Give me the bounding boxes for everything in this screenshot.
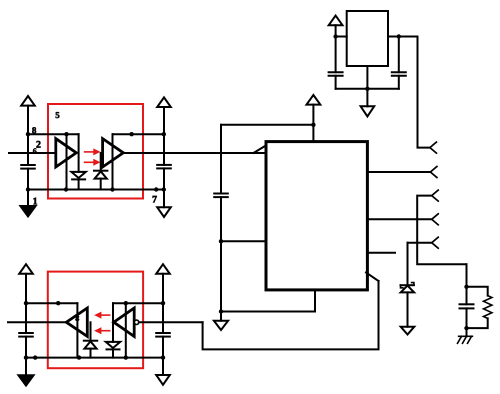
wire cap branch lower: [466, 308, 468, 328]
wire vertical through A3: [76, 303, 78, 357]
wire osc bottom rail: [336, 88, 399, 90]
connector J1: [430, 142, 437, 153]
wire IC right pin 1: [369, 171, 431, 173]
label pin 8 (opto2): [75, 315, 79, 321]
LED D4 feed wire: [112, 303, 114, 342]
wire RC feed vertical: [466, 264, 468, 287]
wire osc right rail: [398, 37, 400, 73]
wire resistor branch top: [467, 287, 488, 296]
wire opto2 top-left segment: [26, 302, 77, 304]
wire decoupling vertical upper: [220, 125, 222, 194]
wire opto1 bottom rail: [28, 189, 164, 191]
capacitor C6 (osc left): [329, 71, 343, 73]
wire IC bottom pin path: [221, 290, 315, 312]
buffer A1 (opto1 input): [56, 139, 77, 167]
connector J5: [432, 237, 439, 248]
wire osc output down: [418, 37, 430, 148]
wire opto1 output to IC: [123, 152, 265, 154]
wire connector5 horizontal: [408, 242, 432, 244]
wire VCC to IC horizontal: [221, 124, 313, 126]
label pin 6: [33, 148, 36, 153]
wire opto1 input: [9, 152, 56, 154]
capacitor C5 (IC decoupling): [214, 193, 228, 195]
wire decoupling vertical lower: [220, 197, 222, 311]
LED D1 feed wire: [78, 134, 80, 172]
wire zener lower: [407, 292, 409, 326]
red box U2 bottom optocoupler: [48, 272, 143, 369]
capacitor C8: [460, 303, 474, 305]
capacitor C7 (osc right): [392, 71, 406, 73]
red light arrow 3: [95, 312, 109, 317]
power symbol VCC4 (opto2 right): [156, 264, 170, 274]
bus-entry mark bottom-right: [366, 273, 379, 282]
ground GND6 (open): [361, 106, 375, 116]
wire connector3 vertical: [417, 196, 466, 265]
junction dots osc: [333, 34, 401, 91]
junction dots opto1: [26, 132, 166, 192]
wire opto2 output (to left): [8, 321, 66, 323]
capacitor C4 (opto2 right): [156, 332, 170, 334]
ground GND1 (filled): [20, 206, 35, 216]
photodiode D3 stub: [90, 322, 92, 340]
ground GND5 (open): [214, 321, 228, 330]
wire VCC1 stem / left rail upper: [27, 106, 29, 165]
red box U1 top optocoupler: [48, 104, 143, 199]
connector J4: [432, 214, 439, 225]
label pin 8: [32, 127, 36, 133]
wire osc right horizontal: [388, 36, 418, 38]
wire gnd stem: [220, 312, 222, 321]
power symbol VCC6 (osc): [329, 16, 343, 26]
capacitor C2 (opto1 right): [157, 164, 171, 166]
wire IC VCC stem: [312, 105, 314, 141]
wire opto2 right rail lower: [162, 337, 164, 375]
wire resistor branch bottom: [467, 318, 488, 328]
buffer A4 (opto2 input): [114, 308, 135, 336]
buffer A2 (opto1 output): [103, 139, 124, 167]
LED D4: [106, 342, 120, 348]
wire left rail lower: [27, 169, 29, 206]
ground GND3 (filled): [18, 375, 33, 385]
red light arrow 4: [95, 328, 109, 333]
wire osc left horizontal: [336, 36, 347, 38]
inverter bubble on A4 input: [134, 320, 138, 324]
label pin 2: [36, 141, 40, 148]
power symbol VCC3 (opto2 left): [19, 264, 33, 274]
wire osc left rail: [335, 25, 337, 72]
wire IC left pin: [221, 240, 266, 242]
capacitor C1 (opto1 left): [21, 164, 35, 166]
wire opto1 top-left segment: [28, 133, 79, 135]
wire cap branch upper: [466, 287, 468, 305]
wire earth stem: [466, 328, 468, 336]
wire opto1 top-right segment: [113, 133, 164, 135]
buffer A3 (opto2 output): [66, 308, 87, 336]
bus-entry mark top-left: [254, 146, 266, 153]
wire vertical through A4: [125, 303, 127, 357]
junction dots opto2: [24, 301, 165, 360]
ground GND4 (open): [156, 375, 170, 385]
ground GND2 (open): [157, 207, 171, 217]
IC U3: [266, 142, 367, 290]
wire opto2 top-right segment: [113, 302, 163, 304]
wire opto2 return path: [203, 281, 379, 349]
wire IC right pin 2: [369, 218, 432, 220]
red light arrow 1: [85, 149, 100, 154]
power symbol VCC2 (opto1 right): [157, 97, 171, 107]
red light arrow 2: [85, 160, 100, 165]
wire right rail upper: [163, 107, 165, 165]
label pin 7: [153, 196, 157, 203]
wire vertical through A2: [112, 134, 114, 189]
label pin 5: [56, 112, 60, 118]
label pin 1: [33, 198, 37, 205]
oscillator Y1: [347, 11, 388, 66]
wire opto2 right rail upper: [162, 274, 164, 333]
capacitor C3 (opto2 left): [19, 332, 33, 334]
wire opto2 input from IC: [139, 321, 203, 323]
power symbol VCC5 (IC): [307, 95, 321, 105]
photodiode D3: [84, 340, 97, 342]
wire right rail lower: [163, 168, 165, 207]
wire zener feed: [407, 243, 409, 286]
wire opto2 left rail upper: [25, 274, 27, 333]
wire osc left lower: [335, 76, 337, 89]
connector J3: [432, 190, 439, 201]
wire vertical through A1: [66, 134, 68, 189]
ground GND7 (open): [401, 327, 415, 335]
photodiode D2: [94, 170, 107, 172]
zener D5: [401, 284, 414, 286]
power symbol VCC1 (opto1 left): [21, 96, 35, 106]
connector J2: [430, 167, 437, 178]
earth ground: [458, 336, 473, 343]
wire osc right lower: [398, 76, 400, 89]
resistor R1: [484, 296, 492, 319]
wire IC right pin 3 stub: [369, 252, 395, 254]
junction dots IC net: [219, 123, 316, 314]
wire osc center vertical: [366, 66, 368, 106]
photodiode D2 stub: [100, 153, 102, 171]
wire opto2 bottom rail: [26, 357, 163, 359]
LED D1: [71, 172, 85, 178]
junction dots RC: [464, 285, 468, 331]
wire opto2 left rail lower: [25, 337, 27, 376]
